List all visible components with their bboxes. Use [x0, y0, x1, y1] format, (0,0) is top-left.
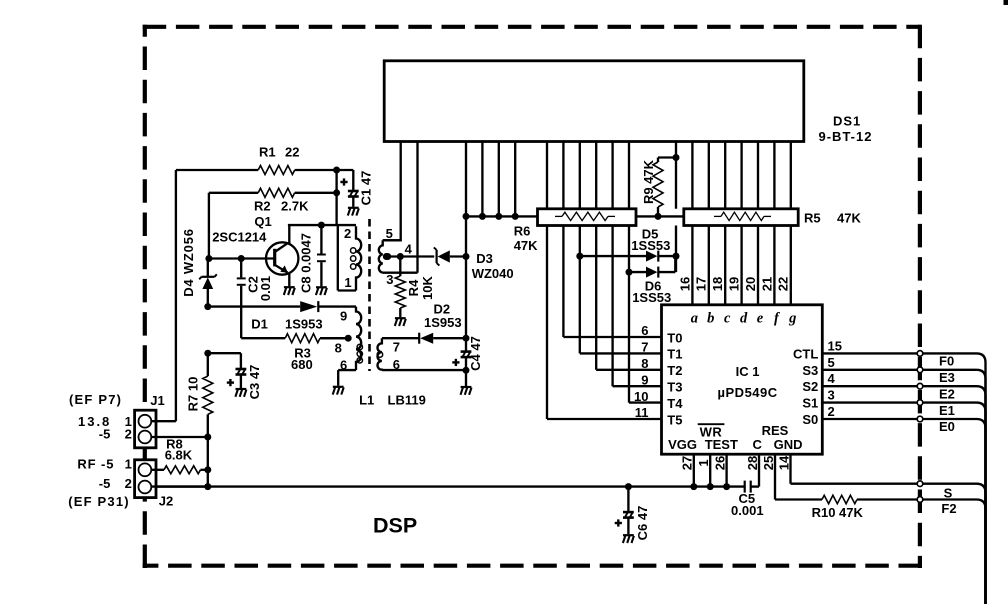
pin labels 6 7 8 9 10 11: [634, 323, 648, 420]
pin labels 16 17 18 19 20 21 22: [677, 277, 790, 291]
label R9 47K: [641, 159, 656, 204]
label VGG: [668, 437, 697, 452]
label R3: [294, 346, 311, 361]
transformer core dashed line: [368, 219, 371, 371]
resistor R2: [209, 188, 337, 197]
ground R4: [395, 318, 406, 326]
pin label 7: [393, 340, 400, 355]
svg-text:C: C: [753, 437, 763, 452]
pin labels 15 5 4 3 2: [828, 338, 842, 419]
terminal E2: [917, 383, 923, 389]
label C pin: [753, 437, 763, 452]
svg-text:25: 25: [761, 456, 776, 470]
wires display right group upper: [676, 142, 791, 209]
svg-text:DSP: DSP: [373, 514, 417, 538]
pin label 3: [386, 272, 393, 287]
svg-text:21: 21: [759, 277, 774, 291]
junction R1-C1 node: [333, 167, 340, 174]
border frame (dashed): [143, 25, 922, 568]
svg-text:17: 17: [694, 277, 709, 291]
label R6 value 47K: [514, 238, 538, 253]
capacitor C4: [452, 338, 471, 374]
wire terminal E1 to bundle: [923, 403, 986, 604]
label C2: [245, 276, 260, 293]
wire terminal S to bundle: [923, 484, 986, 604]
label D3 value WZ040: [472, 266, 514, 281]
wire L1 pin8 tap: [321, 335, 352, 342]
resistor R9: [653, 158, 663, 217]
label F2: [941, 501, 956, 516]
svg-text:C4 47: C4 47: [468, 336, 483, 371]
label RES: [762, 423, 789, 438]
wire R9 top hook: [658, 154, 680, 161]
svg-text:19: 19: [727, 277, 742, 291]
svg-text:T2: T2: [667, 363, 682, 378]
wire D3 node to D2 node: [465, 216, 467, 338]
wire pin25 RES to R10: [775, 454, 822, 499]
svg-text:R10 47K: R10 47K: [812, 505, 864, 520]
terminal E3: [917, 367, 923, 373]
label R4 10K: [406, 275, 435, 299]
svg-text:S0: S0: [802, 412, 818, 427]
label D5 value 1SS53: [631, 238, 670, 253]
junction J2 pin2 node: [204, 483, 211, 490]
svg-text:14: 14: [776, 455, 791, 470]
wire terminal F0 to bundle: [923, 353, 986, 604]
svg-text:9: 9: [641, 372, 648, 387]
label -5 J2: [99, 476, 111, 491]
svg-text:R6: R6: [514, 224, 531, 239]
label C4 47: [468, 336, 483, 371]
svg-text:L1: L1: [359, 393, 374, 408]
svg-text:8: 8: [641, 356, 648, 371]
svg-text:d: d: [740, 310, 748, 326]
svg-text:9: 9: [340, 309, 347, 324]
junction R7 top node: [204, 350, 211, 357]
resistor R7: [203, 353, 213, 437]
svg-text:S1: S1: [802, 396, 818, 411]
svg-text:C3 47: C3 47: [247, 365, 262, 400]
svg-text:S3: S3: [802, 363, 818, 378]
svg-text:c: c: [724, 310, 731, 326]
label D4 WZ056: [181, 228, 196, 297]
connector J1: [135, 410, 156, 448]
label R3 value 680: [291, 357, 313, 372]
label DSP: [373, 514, 417, 538]
diode D2: [382, 333, 466, 344]
junction D2 node: [463, 335, 470, 342]
wire J1 pin2: [151, 434, 211, 487]
svg-text:16: 16: [677, 277, 692, 291]
svg-text:9-BT-12: 9-BT-12: [819, 129, 873, 144]
resistor R3: [241, 334, 348, 343]
label C2 value 0.01: [258, 276, 273, 301]
label R6: [514, 224, 531, 239]
svg-text:R5: R5: [804, 210, 821, 225]
svg-text:CTL: CTL: [793, 346, 818, 361]
svg-text:E2: E2: [939, 386, 955, 401]
wire terminal E0 to bundle: [923, 419, 986, 604]
svg-text:10: 10: [634, 389, 648, 404]
svg-text:3: 3: [828, 388, 835, 403]
pin label 6 primary: [340, 357, 347, 372]
svg-text:7: 7: [641, 340, 648, 355]
terminal F0: [917, 351, 923, 357]
label E2: [939, 386, 955, 401]
transformer L1 primary top winding: [338, 225, 361, 290]
svg-text:4: 4: [828, 371, 836, 386]
capacitor C3: [208, 353, 247, 388]
svg-text:T5: T5: [667, 412, 682, 427]
ground C4: [461, 387, 472, 395]
svg-text:TEST: TEST: [705, 437, 738, 452]
label E3: [939, 370, 955, 385]
pin label 2: [344, 226, 351, 241]
label D6 value 1SS53: [632, 290, 671, 305]
svg-text:F0: F0: [939, 354, 954, 369]
connector J2: [135, 460, 156, 498]
pin label 4: [405, 242, 413, 257]
terminal S: [917, 481, 923, 487]
capacitor C6: [615, 487, 634, 535]
svg-text:F2: F2: [941, 501, 956, 516]
zener diode D3: [434, 247, 470, 265]
labels a b c d e f g: [691, 310, 797, 326]
svg-text:E3: E3: [939, 370, 955, 385]
transformer L1 secondary bottom winding: [378, 338, 382, 370]
wire IC S1 to terminal E1: [822, 401, 917, 403]
wire pin26 TEST: [723, 454, 730, 490]
coil curls primary top: [351, 248, 356, 269]
svg-text:1SS53: 1SS53: [631, 238, 670, 253]
svg-text:T3: T3: [667, 380, 682, 395]
ground C8: [316, 287, 327, 295]
wire R2 left riser: [208, 193, 210, 259]
svg-text:RES: RES: [762, 423, 789, 438]
svg-text:R2: R2: [254, 199, 271, 214]
pin label 9: [340, 309, 347, 324]
svg-text:D1: D1: [251, 317, 268, 332]
svg-text:18: 18: [710, 277, 725, 291]
coil curls primary bottom: [357, 344, 362, 363]
svg-text:2: 2: [344, 226, 351, 241]
svg-text:5: 5: [386, 226, 393, 241]
ground C3: [235, 389, 246, 397]
svg-text:4: 4: [405, 242, 413, 257]
svg-text:2SC1214: 2SC1214: [212, 230, 267, 245]
labels T0-T5: [667, 330, 683, 427]
wire IC S3 to terminal E3: [822, 369, 917, 371]
label C1 47: [359, 171, 374, 206]
wire terminal F2 to bundle: [923, 500, 986, 604]
ground C6: [623, 535, 634, 543]
label E0: [939, 419, 955, 434]
svg-text:20: 20: [743, 277, 758, 291]
svg-text:680: 680: [291, 357, 313, 372]
svg-text:5: 5: [828, 355, 835, 370]
display DS1 box: [384, 61, 804, 142]
wire pin1 WR: [707, 454, 714, 490]
svg-text:R9 47K: R9 47K: [641, 159, 656, 204]
svg-text:T0: T0: [667, 330, 682, 345]
capacitor C5: [745, 481, 751, 493]
resistor R1: [176, 166, 337, 175]
label R2 2.7K: [254, 199, 309, 214]
svg-text:E0: E0: [939, 419, 955, 434]
svg-text:7: 7: [393, 340, 400, 355]
svg-text:J1: J1: [150, 393, 164, 408]
svg-text:2: 2: [828, 404, 835, 419]
svg-text:6: 6: [340, 357, 347, 372]
pin label 5: [386, 226, 393, 241]
svg-text:RF -5: RF -5: [77, 456, 114, 471]
label (EF P7): [69, 392, 122, 407]
label R1 22: [259, 144, 299, 159]
svg-text:22: 22: [776, 277, 791, 291]
zener diode D4: [199, 259, 217, 307]
label TEST: [705, 437, 738, 452]
label E1: [939, 403, 955, 418]
svg-text:VGG: VGG: [668, 437, 697, 452]
label DS1: [833, 113, 861, 128]
svg-text:1: 1: [344, 275, 351, 290]
label J1: [150, 393, 164, 408]
wire IC S2 to terminal E2: [822, 385, 917, 387]
svg-text:10K: 10K: [420, 275, 435, 299]
label uPD549C: [718, 385, 778, 400]
svg-text:LB119: LB119: [388, 393, 426, 408]
wire terminal E3 to bundle: [923, 370, 986, 604]
label S: [944, 486, 953, 501]
label (EF P31): [68, 494, 130, 509]
label R8: [166, 437, 183, 452]
transformer L1 secondary top winding: [379, 240, 418, 272]
label C6 47: [635, 506, 650, 541]
svg-text:15: 15: [828, 338, 842, 353]
label 9-BT-12: [819, 129, 873, 144]
label R7 10: [186, 377, 201, 412]
label GND: [774, 437, 803, 452]
label F0: [939, 354, 954, 369]
wire J1 pin1: [151, 420, 176, 422]
svg-text:(EF P7): (EF P7): [69, 392, 122, 407]
svg-text:E1: E1: [939, 403, 955, 418]
ground Q1 emitter: [284, 287, 295, 295]
svg-text:-5: -5: [99, 427, 111, 442]
coil curl secondary top: [384, 254, 389, 259]
svg-text:3: 3: [386, 272, 393, 287]
wire Q1 emitter: [288, 273, 290, 287]
label Q1: [254, 214, 271, 229]
label RF -5: [77, 456, 114, 471]
wire C1 bus vertical: [335, 170, 337, 225]
wire IC CTL to terminal F0: [822, 352, 917, 354]
svg-text:e: e: [757, 310, 764, 326]
diode D5: [576, 251, 676, 262]
junction C6 node: [625, 483, 632, 490]
resistor R4: [395, 257, 405, 318]
svg-text:C8 0.0047: C8 0.0047: [298, 233, 313, 293]
wire pin27 VGG: [690, 454, 697, 490]
label C5 value 0.001: [731, 503, 764, 518]
svg-text:1SS53: 1SS53: [632, 290, 671, 305]
capacitor C2: [237, 259, 246, 339]
diode D1: [204, 301, 356, 312]
svg-text:T4: T4: [667, 396, 683, 411]
wire pin28 C: [751, 454, 759, 486]
wire IC S0 to terminal E0: [822, 418, 917, 420]
terminal E1: [917, 400, 923, 406]
junction R2-C1 node: [333, 189, 340, 196]
svg-text:D2: D2: [434, 301, 451, 316]
wires display group to R6 row: [466, 142, 515, 217]
pin labels 27 1 26 28 25 14: [680, 455, 792, 470]
svg-text:R7 10: R7 10: [186, 377, 201, 412]
svg-text:D3: D3: [476, 251, 493, 266]
label C8 0.0047: [298, 233, 313, 293]
svg-text:b: b: [707, 310, 714, 326]
wire display pin 3 to L1 pin3: [416, 142, 418, 273]
svg-text:2.7K: 2.7K: [281, 199, 309, 214]
svg-text:T1: T1: [667, 347, 682, 362]
pin number J1-1: [125, 414, 132, 429]
pin number J2-2: [125, 476, 132, 491]
svg-text:IC 1: IC 1: [736, 364, 760, 379]
labels CTL S3 S2 S1 S0: [793, 346, 818, 427]
label L1 LB119: [359, 393, 426, 408]
wire R6 row: [463, 213, 538, 220]
svg-text:22: 22: [285, 144, 299, 159]
wire terminal E2 to bundle: [923, 386, 986, 604]
svg-text:1S953: 1S953: [285, 317, 323, 332]
wire Q1 base: [205, 255, 274, 262]
svg-text:2: 2: [125, 476, 132, 491]
resistor R8: [164, 466, 211, 474]
svg-text:-5: -5: [99, 476, 111, 491]
wire L1 pin4 tap: [384, 253, 434, 260]
transistor Q1: [266, 242, 298, 274]
label D6: [645, 279, 662, 294]
wire Q1 collector riser: [288, 225, 356, 243]
svg-text:28: 28: [745, 456, 760, 470]
wires segment staircase to IC T pins: [547, 226, 662, 420]
svg-text:S: S: [944, 486, 953, 501]
resistor network R5: [684, 209, 798, 226]
pin label 1: [344, 275, 351, 290]
coil curl secondary bottom: [377, 352, 383, 358]
diode D6: [626, 256, 676, 278]
op-amp U IC1 box: [662, 305, 823, 454]
pin label 6 secondary: [393, 357, 400, 372]
label -5 J1: [99, 427, 111, 442]
svg-text:C6 47: C6 47: [635, 506, 650, 541]
wire ground bus: [151, 485, 744, 487]
label D2: [434, 301, 451, 316]
svg-text:1S953: 1S953: [424, 315, 462, 330]
scan mark top-right corner: [1004, 0, 1008, 5]
svg-text:1: 1: [696, 459, 711, 466]
transformer L1 primary bottom winding: [338, 307, 361, 386]
svg-text:47K: 47K: [837, 210, 861, 225]
svg-text:1: 1: [125, 456, 132, 471]
wire L1 pin6 secondary to C4: [382, 369, 466, 371]
svg-text:0.01: 0.01: [258, 276, 273, 301]
svg-text:J2: J2: [159, 494, 173, 509]
svg-text:6.8K: 6.8K: [165, 448, 193, 463]
wire D5-D6 net vertical: [673, 226, 680, 273]
svg-text:47K: 47K: [514, 238, 538, 253]
svg-text:(EF P31): (EF P31): [68, 494, 130, 509]
label R5 47K: [804, 210, 861, 225]
svg-text:a: a: [691, 310, 698, 326]
svg-text:WZ040: WZ040: [472, 266, 514, 281]
wire J2 pin1 to R8: [151, 469, 164, 471]
svg-text:C1 47: C1 47: [359, 171, 374, 206]
label D3: [476, 251, 493, 266]
svg-text:DS1: DS1: [833, 113, 861, 128]
svg-text:27: 27: [680, 456, 695, 470]
svg-text:11: 11: [635, 405, 649, 420]
pin number J1-2: [125, 427, 132, 442]
label D2 value 1S953: [424, 315, 462, 330]
svg-text:S2: S2: [802, 379, 818, 394]
label R10 47K: [812, 505, 864, 520]
svg-text:0.001: 0.001: [731, 503, 764, 518]
svg-text:µPD549C: µPD549C: [718, 385, 778, 400]
wires display segment group upper: [547, 142, 629, 209]
label D1 1S953: [251, 317, 322, 332]
wire pin14 GND to terminal S: [791, 454, 918, 484]
wire display pin 5 to L1 pin5: [383, 142, 401, 241]
wire C4 to ground: [465, 370, 467, 386]
label D5: [642, 226, 659, 241]
label C3 47: [247, 365, 262, 400]
resistor R10: [822, 495, 917, 503]
pin label 8: [335, 341, 342, 356]
svg-text:6: 6: [641, 323, 648, 338]
capacitor C8: [317, 222, 326, 287]
terminal F2: [917, 497, 923, 503]
capacitor C1: [337, 170, 359, 207]
label 13.8: [78, 414, 111, 429]
label C5: [738, 491, 755, 506]
svg-text:GND: GND: [774, 437, 803, 452]
wire R6 to R5 row: [636, 213, 684, 220]
svg-text:D4 WZ056: D4 WZ056: [181, 228, 196, 297]
svg-text:Q1: Q1: [254, 214, 271, 229]
terminal E0: [917, 416, 923, 422]
svg-text:2: 2: [125, 427, 132, 442]
label R8 value 6.8K: [165, 448, 193, 463]
svg-text:R1: R1: [259, 144, 276, 159]
resistor network R6: [538, 209, 637, 226]
label J2: [159, 494, 173, 509]
label IC 1: [736, 364, 760, 379]
svg-text:26: 26: [713, 456, 728, 470]
ground L1 pin6 primary: [333, 387, 344, 395]
pin number J2-1: [125, 456, 132, 471]
wire J2 pin2: [151, 485, 208, 487]
label 2SC1214: [212, 230, 267, 245]
ground C1: [348, 208, 359, 216]
svg-text:8: 8: [335, 341, 342, 356]
svg-text:R4: R4: [406, 279, 421, 296]
wires a-g to IC pins 16-22: [692, 226, 790, 305]
wire 13.8V riser: [175, 170, 177, 421]
svg-text:g: g: [788, 310, 796, 326]
label WR with overline: [698, 424, 725, 439]
